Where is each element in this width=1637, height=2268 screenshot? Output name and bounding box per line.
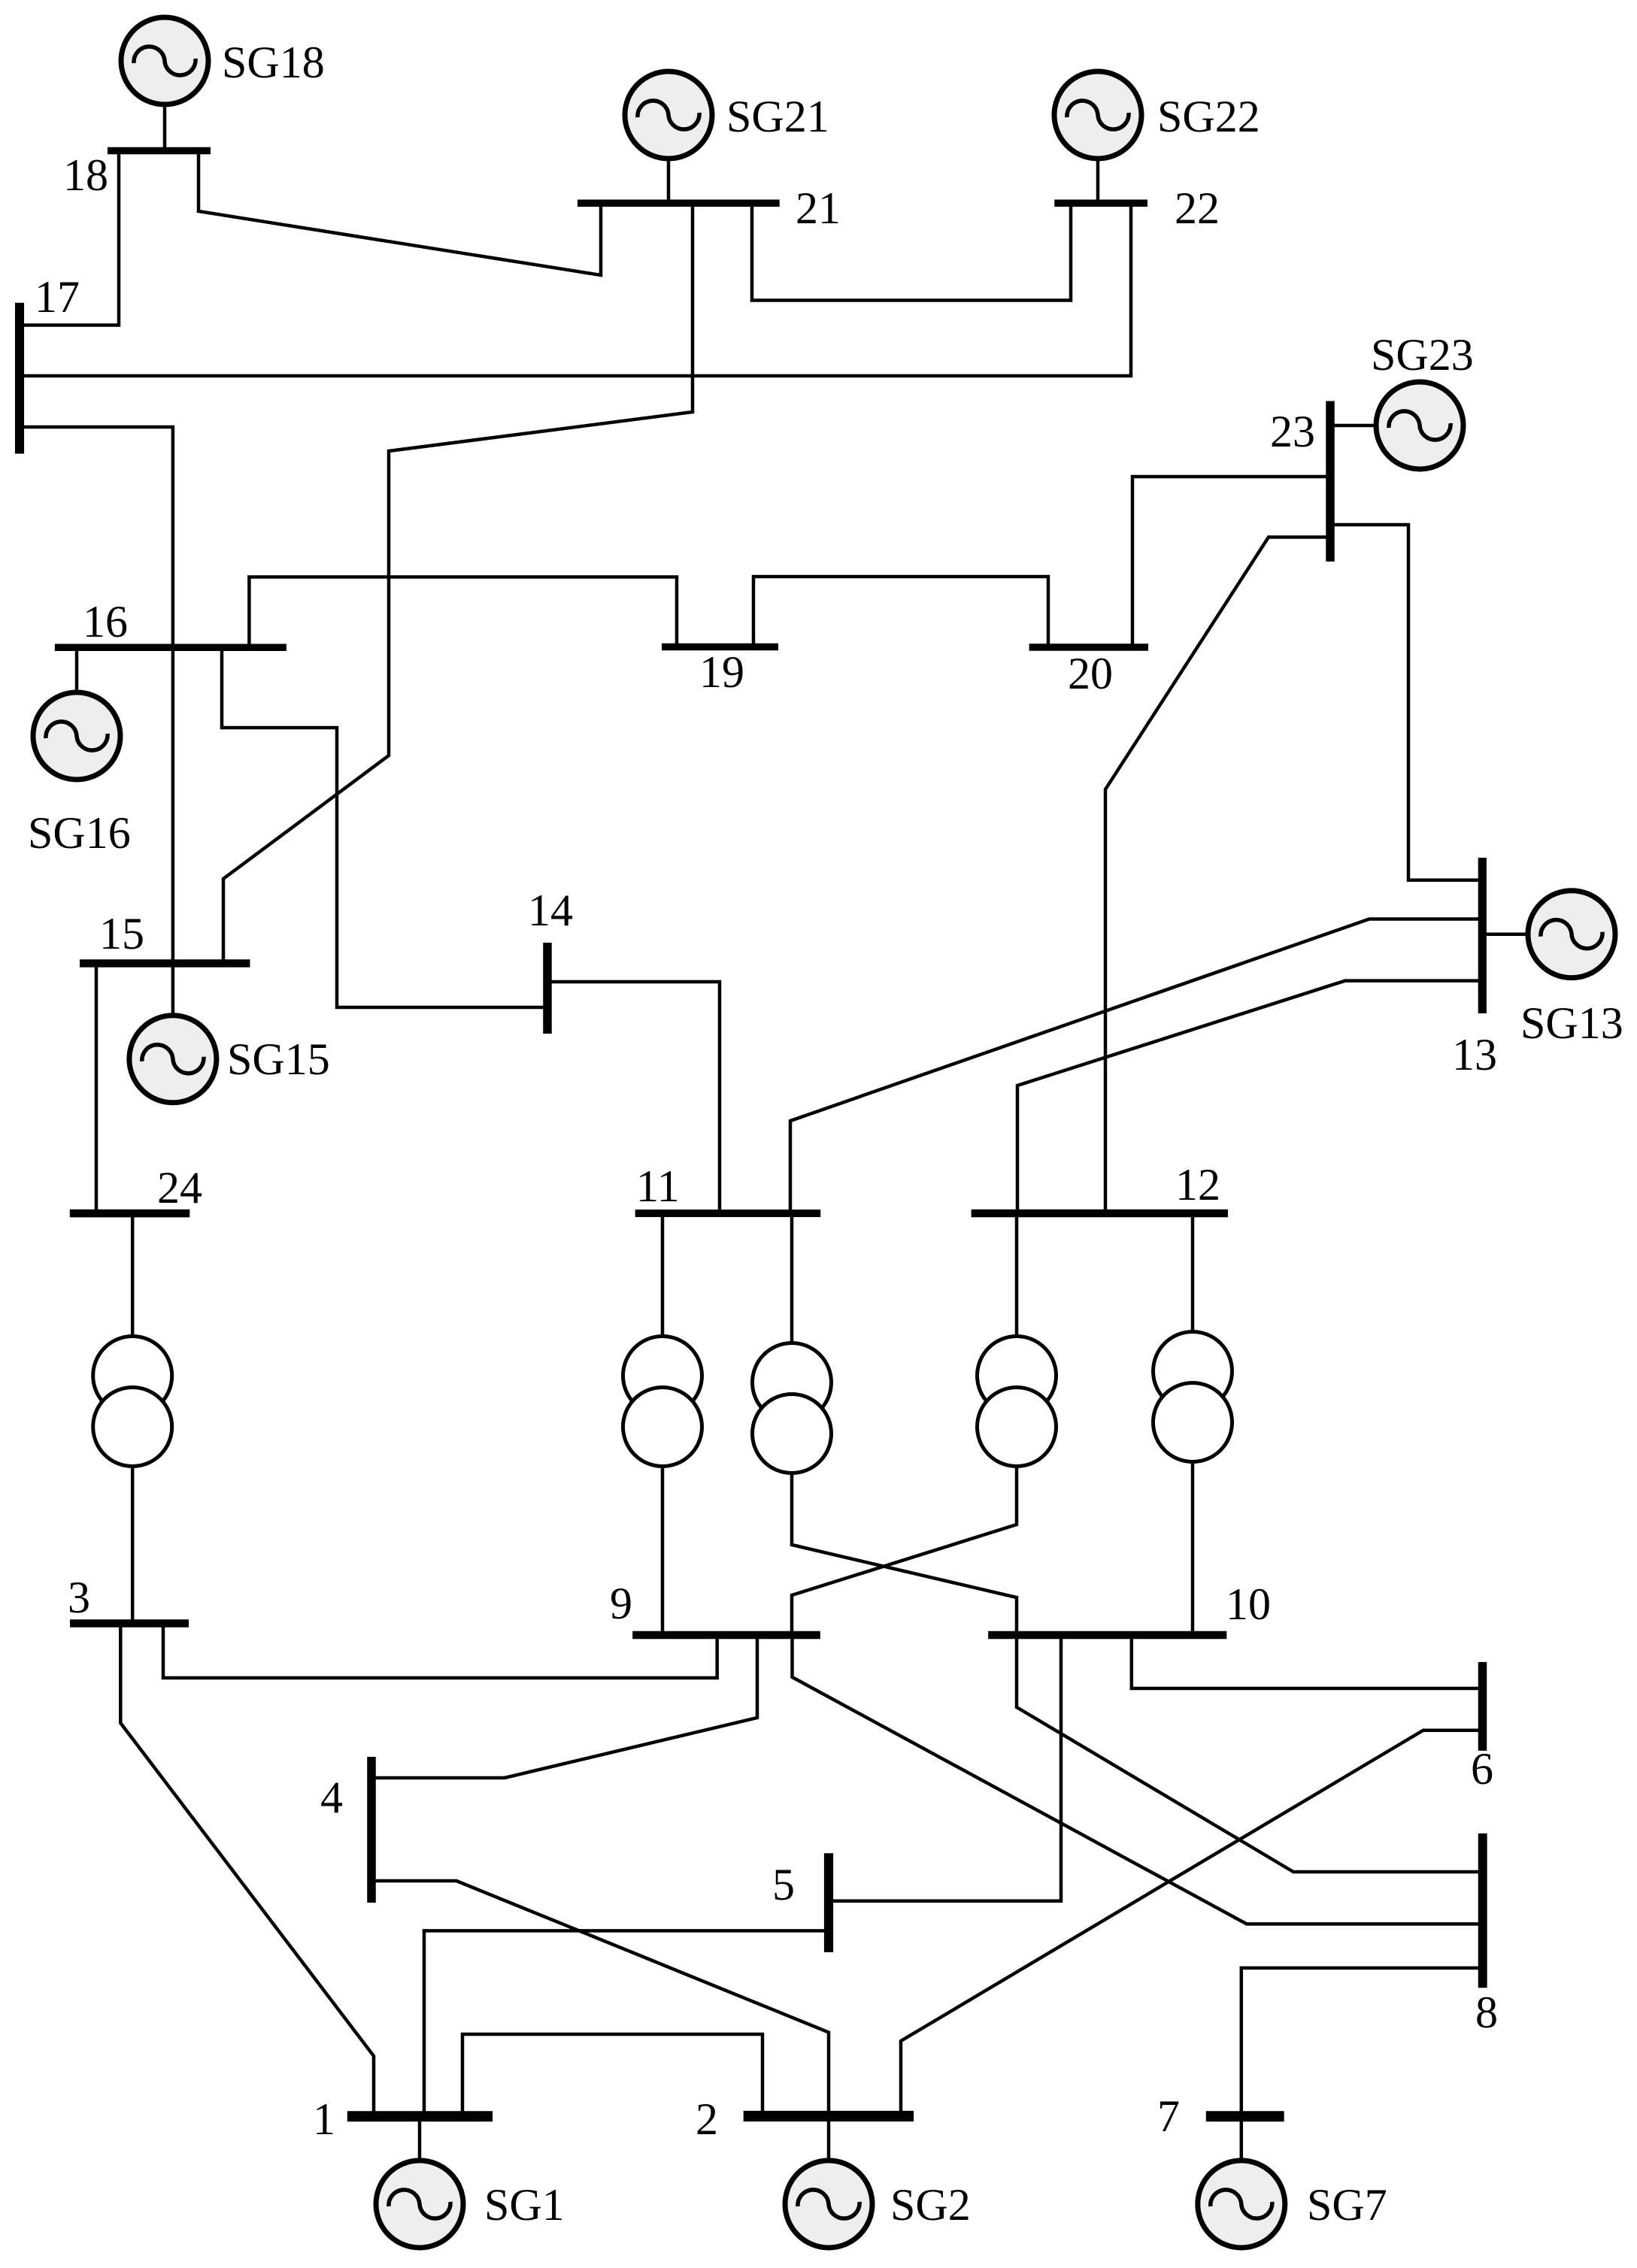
svg-text:SG13: SG13 [1520, 998, 1623, 1048]
svg-text:15: 15 [99, 909, 144, 958]
svg-text:SG21: SG21 [726, 92, 829, 141]
svg-text:SG23: SG23 [1371, 330, 1474, 380]
svg-text:SG15: SG15 [227, 1034, 330, 1084]
svg-text:14: 14 [528, 886, 573, 935]
svg-text:11: 11 [636, 1161, 680, 1211]
svg-text:3: 3 [68, 1573, 90, 1622]
svg-text:SG16: SG16 [28, 808, 131, 858]
svg-text:19: 19 [699, 647, 744, 697]
svg-text:5: 5 [772, 1860, 795, 1909]
svg-text:22: 22 [1175, 183, 1220, 233]
svg-text:18: 18 [63, 150, 108, 200]
svg-text:8: 8 [1475, 1988, 1498, 2037]
svg-text:20: 20 [1068, 649, 1113, 698]
svg-text:16: 16 [83, 597, 128, 646]
svg-text:23: 23 [1270, 407, 1315, 456]
svg-text:12: 12 [1175, 1160, 1220, 1210]
svg-text:13: 13 [1452, 1030, 1497, 1079]
svg-text:SG7: SG7 [1307, 2180, 1387, 2230]
svg-text:10: 10 [1226, 1579, 1271, 1629]
svg-text:21: 21 [796, 183, 841, 233]
svg-text:SG22: SG22 [1157, 92, 1260, 141]
svg-text:4: 4 [320, 1773, 343, 1822]
svg-text:6: 6 [1471, 1744, 1493, 1794]
svg-text:SG1: SG1 [484, 2180, 565, 2230]
svg-text:2: 2 [696, 2094, 718, 2144]
svg-text:7: 7 [1157, 2091, 1180, 2141]
svg-text:24: 24 [157, 1163, 202, 1213]
svg-text:SG2: SG2 [890, 2180, 971, 2230]
svg-text:9: 9 [610, 1579, 632, 1628]
svg-text:17: 17 [35, 272, 80, 322]
svg-text:1: 1 [313, 2094, 335, 2144]
svg-text:SG18: SG18 [222, 38, 325, 87]
